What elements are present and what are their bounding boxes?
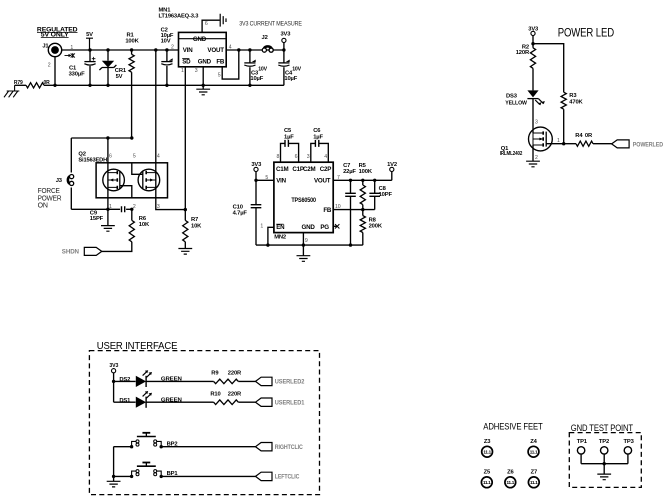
svg-text:PG: PG xyxy=(320,224,329,231)
svg-text:1µF: 1µF xyxy=(313,135,323,141)
pin 1 of J1 xyxy=(70,45,73,51)
capacitor C2 xyxy=(165,48,168,51)
capacitor C4 xyxy=(283,50,285,63)
wire DS1 row corner xyxy=(114,401,136,403)
pin 1 label MN1 SD xyxy=(181,68,184,74)
svg-text:GND: GND xyxy=(193,36,207,43)
svg-text:5V: 5V xyxy=(86,32,93,38)
svg-text:10µF: 10µF xyxy=(250,76,263,82)
svg-text:DS2: DS2 xyxy=(119,377,130,383)
resistor R3 xyxy=(569,93,577,99)
wire MN1 FB tie to VOUT xyxy=(222,50,239,79)
svg-text:1V2: 1V2 xyxy=(387,162,397,168)
ground rotated at MN1 tab xyxy=(220,14,226,27)
pin 2 label Q2 xyxy=(133,204,136,210)
svg-text:YELLOW: YELLOW xyxy=(505,100,527,106)
wire DS2 to R9 xyxy=(146,380,214,382)
wire Q1 gate to node xyxy=(546,143,564,145)
svg-text:ADHESIVE FEET: ADHESIVE FEET xyxy=(483,421,543,432)
led DS2 xyxy=(136,370,152,387)
svg-text:3V3: 3V3 xyxy=(109,363,118,369)
resistor R4 xyxy=(564,143,576,145)
mosfet Q2-B right xyxy=(138,169,160,191)
capacitor C8 xyxy=(374,180,376,193)
svg-text:5V: 5V xyxy=(116,74,123,80)
svg-text:2: 2 xyxy=(535,155,538,161)
resistor R7 xyxy=(184,210,186,221)
pin 4 label C6 xyxy=(324,154,327,160)
svg-text:MN1: MN1 xyxy=(159,7,172,13)
zener diode CR1 xyxy=(106,48,109,51)
wire TP3 down xyxy=(627,454,629,464)
svg-text:10V: 10V xyxy=(292,67,301,73)
svg-text:1µF: 1µF xyxy=(284,135,294,141)
wire R8 to gnd rail xyxy=(362,233,364,246)
wire MN1 pin6 to side ground xyxy=(202,20,220,32)
svg-text:6: 6 xyxy=(109,153,112,159)
svg-text:FORCE: FORCE xyxy=(38,188,61,195)
wire Q2 pin1 down xyxy=(107,198,109,226)
svg-text:C6: C6 xyxy=(313,128,321,134)
wire R3 to gate node xyxy=(563,109,565,144)
wire MN1 SD pin down to R7 node xyxy=(184,67,186,210)
wire C9 row xyxy=(71,208,120,210)
svg-text:7: 7 xyxy=(337,175,340,181)
svg-text:DS1: DS1 xyxy=(119,398,131,404)
adhesive foot Z4 xyxy=(528,446,539,457)
svg-text:11.1: 11.1 xyxy=(507,480,515,485)
pin 1 polarity arrow marker xyxy=(65,53,75,58)
jumper J3 xyxy=(56,178,63,184)
resistor R6 xyxy=(129,220,134,241)
wire to tag RIGHTCLIC xyxy=(161,446,255,448)
wire top rail of Q2 block xyxy=(71,137,132,139)
svg-text:2: 2 xyxy=(48,63,51,69)
pin 6 label Q2 xyxy=(109,153,112,159)
wire R10 to tag xyxy=(238,401,255,403)
connector J1 xyxy=(48,43,61,56)
svg-text:4: 4 xyxy=(324,154,327,160)
svg-text:3: 3 xyxy=(157,204,160,210)
wire J1 pin2 down xyxy=(54,57,56,86)
wire R7 to ground xyxy=(184,242,186,249)
wire Q2-A gate to pin 2 xyxy=(120,186,132,198)
svg-text:R9: R9 xyxy=(211,370,219,376)
wire bus to ground xyxy=(603,464,605,474)
svg-text:1: 1 xyxy=(181,68,184,74)
resistor R2 xyxy=(522,44,529,50)
svg-text:220R: 220R xyxy=(228,370,242,376)
wire left stub BP2 xyxy=(114,446,132,448)
svg-text:VIN: VIN xyxy=(276,178,286,185)
ground rail bottom xyxy=(55,84,284,86)
svg-text:1: 1 xyxy=(260,223,263,229)
svg-text:Z4: Z4 xyxy=(530,439,537,445)
svg-text:Z7: Z7 xyxy=(531,469,537,475)
svg-text:POWER LED: POWER LED xyxy=(558,26,615,40)
pin 3 label Q2 xyxy=(157,204,160,210)
svg-text:VOUT: VOUT xyxy=(314,178,331,185)
svg-text:R7: R7 xyxy=(191,217,198,223)
title USER INTERFACE xyxy=(97,340,178,352)
pin 8 label C5 xyxy=(277,154,280,160)
svg-text:C2M: C2M xyxy=(303,166,316,173)
resistor R10 xyxy=(210,391,220,397)
wire TP2 down xyxy=(603,454,605,464)
capacitor C7 xyxy=(343,163,350,169)
wire R6 to SHDN tag xyxy=(102,242,132,252)
adhesive foot Z7 xyxy=(528,477,539,488)
push button BP1 xyxy=(132,463,162,477)
dashed frame GND TEST POINT xyxy=(569,433,641,488)
svg-text:LEFTCLIC: LEFTCLIC xyxy=(275,474,300,481)
resistor R9 xyxy=(211,370,219,376)
wire R1 to Q2 pin5 rail xyxy=(131,72,133,138)
ground at Q1 xyxy=(526,161,540,167)
wire PG stub with no-connect X xyxy=(333,225,337,227)
svg-text:C2P: C2P xyxy=(320,166,332,173)
svg-text:MN2: MN2 xyxy=(274,234,286,240)
net 3V3 at regulator output xyxy=(282,48,285,51)
wire button column xyxy=(113,447,115,482)
svg-text:8: 8 xyxy=(277,154,280,160)
svg-text:VIN: VIN xyxy=(183,47,193,54)
svg-text:GND: GND xyxy=(198,59,212,66)
wire FB line xyxy=(333,209,375,211)
svg-text:POWERLED: POWERLED xyxy=(633,141,664,148)
output tag USERLED2 xyxy=(256,377,273,385)
svg-text:120R: 120R xyxy=(516,50,530,56)
svg-text:3V3: 3V3 xyxy=(528,26,539,32)
wire J1 to MN1 VIN rail xyxy=(62,49,179,51)
pin 10 label MN2 FB xyxy=(335,204,341,210)
svg-text:RIGHTCLIC: RIGHTCLIC xyxy=(275,444,304,451)
test point TP2 xyxy=(601,447,608,454)
pin 1 label Q2 xyxy=(109,204,112,210)
pin 2 of J1 xyxy=(48,63,51,69)
svg-text:15PF: 15PF xyxy=(90,216,104,222)
svg-text:TP3: TP3 xyxy=(624,439,635,445)
svg-text:3V3: 3V3 xyxy=(280,32,291,38)
svg-text:5: 5 xyxy=(133,153,136,159)
svg-text:R3: R3 xyxy=(569,93,577,99)
capacitor C5 xyxy=(284,128,292,134)
pin 6 label C5 xyxy=(295,154,298,160)
svg-text:LT1963AEQ-3.3: LT1963AEQ-3.3 xyxy=(159,13,200,19)
svg-text:22µF: 22µF xyxy=(343,169,356,175)
led DS1 xyxy=(136,391,152,408)
led DS3 YELLOW xyxy=(527,90,544,105)
text FORCE POWER ON xyxy=(38,188,61,195)
wire R2 to DS3 xyxy=(532,68,534,90)
svg-text:C1M: C1M xyxy=(276,166,289,173)
svg-text:10V: 10V xyxy=(258,67,267,73)
test point TP1 xyxy=(577,447,584,454)
pin 5 label Q2 xyxy=(133,153,136,159)
svg-text:330µF: 330µF xyxy=(69,72,86,78)
resistor R1 xyxy=(130,48,133,51)
wire Q2 pin2 down to R6 xyxy=(131,209,133,220)
test point TP3 xyxy=(624,447,631,454)
node junction 5V/C1 xyxy=(88,48,91,51)
svg-text:TP1: TP1 xyxy=(577,439,588,445)
svg-text:Z3: Z3 xyxy=(484,439,491,445)
resistor R5 xyxy=(359,163,367,169)
wire 3V3-sense down to Q2 pin 4 xyxy=(154,48,157,51)
svg-text:11.1: 11.1 xyxy=(530,450,538,455)
svg-text:0R: 0R xyxy=(585,133,593,139)
wire to R3 branch xyxy=(533,44,564,92)
svg-text:J3: J3 xyxy=(56,178,63,184)
svg-text:3: 3 xyxy=(535,120,538,126)
capacitor C3 xyxy=(248,48,251,51)
svg-text:10µF: 10µF xyxy=(284,76,297,82)
svg-text:ON: ON xyxy=(38,203,48,210)
svg-text:GND: GND xyxy=(302,224,316,231)
svg-text:11.1: 11.1 xyxy=(530,480,538,485)
ground at MN2 GND xyxy=(297,256,311,262)
regulator MN1 LT1963AEQ-3.3 xyxy=(159,7,172,13)
svg-text:11.1: 11.1 xyxy=(483,480,491,485)
svg-text:10V: 10V xyxy=(161,39,171,45)
pin 2 label MN1 VIN xyxy=(171,45,174,51)
pin 4 label Q2 xyxy=(157,153,160,159)
svg-text:6: 6 xyxy=(295,154,298,160)
svg-text:100K: 100K xyxy=(125,38,139,44)
svg-text:3: 3 xyxy=(307,154,310,160)
output tag USERLED1 xyxy=(256,398,273,406)
capacitor C6 xyxy=(313,128,321,134)
wire test point bus xyxy=(581,463,628,465)
svg-text:R8: R8 xyxy=(369,217,377,223)
pin 3 label C6 xyxy=(307,154,310,160)
pin 3 label MN1 GND xyxy=(195,68,198,74)
svg-text:DS3: DS3 xyxy=(506,94,518,100)
pin 2 label Q1 xyxy=(535,155,538,161)
pin 7 label MN2 VOUT xyxy=(337,175,340,181)
svg-text:EN: EN xyxy=(276,224,285,231)
svg-text:2: 2 xyxy=(171,45,174,51)
mosfet Q1 IRLML2402 xyxy=(529,127,553,151)
title POWER LED xyxy=(558,26,615,40)
svg-text:TP2: TP2 xyxy=(599,439,609,445)
svg-text:TPS60500: TPS60500 xyxy=(291,198,316,204)
power symbol 5V xyxy=(86,32,93,38)
svg-text:R4: R4 xyxy=(575,133,583,139)
svg-text:1: 1 xyxy=(557,138,560,144)
svg-text:3V3 CURRENT MEASURE: 3V3 CURRENT MEASURE xyxy=(239,20,302,27)
wire VOUT rail xyxy=(333,179,392,181)
svg-text:IRLML2402: IRLML2402 xyxy=(500,151,523,157)
ic MN2 TPS60500 xyxy=(274,162,333,232)
svg-text:C5: C5 xyxy=(284,128,292,134)
input tag SHDN xyxy=(84,247,102,255)
wire Q2 pin3 to R7 xyxy=(156,198,186,210)
svg-text:3: 3 xyxy=(195,68,198,74)
pin 5 label MN1 FB xyxy=(218,73,221,79)
ground test points xyxy=(597,474,611,480)
adhesive foot Z5 xyxy=(481,477,492,488)
net 3V3 at TPS input xyxy=(254,167,258,171)
svg-text:100K: 100K xyxy=(359,169,373,175)
wire MN1 VOUT rail xyxy=(226,49,284,51)
jumper J2 xyxy=(262,35,268,41)
wire to tag LEFTCLIC xyxy=(161,475,255,477)
pin 1 label MN2 EN xyxy=(260,223,263,229)
pin 5 label MN2 VIN xyxy=(265,175,268,181)
junction C2 bottom xyxy=(165,84,168,87)
resistor R79 xyxy=(44,84,55,86)
svg-text:0R: 0R xyxy=(44,80,51,86)
resistor R8 xyxy=(362,210,364,216)
ground at MN1 GND xyxy=(196,89,210,95)
ground user interface xyxy=(107,481,121,487)
pin 4 label MN1 VOUT xyxy=(229,45,232,51)
svg-text:220R: 220R xyxy=(228,391,242,397)
text 3V3 CURRENT MEASURE xyxy=(239,20,302,27)
title GND TEST POINT xyxy=(571,423,633,434)
mosfet Q2-A left xyxy=(103,169,125,191)
wire EN pin xyxy=(268,227,274,245)
svg-text:FB: FB xyxy=(216,59,225,66)
svg-text:5: 5 xyxy=(265,175,268,181)
svg-text:J1: J1 xyxy=(42,44,49,50)
wire MN1 GND pin to ground xyxy=(202,67,204,89)
wire Q2 pin6 through left mosfet xyxy=(107,138,109,198)
chassis ground at R79 xyxy=(4,85,19,97)
wire Q2 pin5 to Q2-B gate xyxy=(132,163,143,175)
capacitor C10 xyxy=(255,180,257,204)
ground at Q2 pin1 xyxy=(101,226,115,232)
svg-text:11.1: 11.1 xyxy=(483,450,491,455)
wire TP1 down xyxy=(580,454,582,464)
svg-text:470K: 470K xyxy=(569,100,583,106)
net 3V3 power led xyxy=(531,31,535,35)
svg-text:4.7µF: 4.7µF xyxy=(233,210,248,216)
pin 6 label MN1 GND tab xyxy=(205,21,208,27)
net 3V3 user interface xyxy=(112,369,116,373)
push button BP2 xyxy=(132,433,162,447)
wire R4 to POWERLED tag xyxy=(593,143,612,145)
svg-text:Z5: Z5 xyxy=(484,469,491,475)
svg-text:FB: FB xyxy=(323,207,332,214)
title ADHESIVE FEET xyxy=(483,421,543,432)
junction C1 bottom xyxy=(88,84,91,87)
wire GND pin 9 xyxy=(302,233,304,256)
output tag RIGHTCLIC xyxy=(256,443,273,451)
svg-text:9: 9 xyxy=(305,238,308,244)
svg-text:J2: J2 xyxy=(262,35,268,41)
svg-text:USERLED1: USERLED1 xyxy=(275,399,305,406)
svg-text:4: 4 xyxy=(157,153,160,159)
wire Q2 pin4 through right mosfet xyxy=(155,163,157,198)
wire R9 to tag xyxy=(238,380,255,382)
wire Q1 source down xyxy=(532,145,534,161)
svg-text:SHDN: SHDN xyxy=(62,248,80,255)
dashed frame USER INTERFACE xyxy=(89,351,319,495)
dual mosfet Q2 Si1563EDH xyxy=(78,152,85,158)
svg-text:USERLED2: USERLED2 xyxy=(275,379,305,386)
svg-text:10K: 10K xyxy=(139,222,150,228)
wire DS3 to Q1 drain xyxy=(532,99,534,133)
wire DS1 to R10 xyxy=(146,401,214,403)
pin 1 label Q1 xyxy=(557,138,560,144)
adhesive foot Z3 xyxy=(482,446,493,457)
svg-text:3V3: 3V3 xyxy=(251,162,262,168)
svg-text:USER INTERFACE: USER INTERFACE xyxy=(97,340,178,352)
pin 3 label Q1 xyxy=(535,120,538,126)
capacitor C9 xyxy=(122,206,125,212)
pin 9 label MN2 xyxy=(305,238,308,244)
svg-text:10K: 10K xyxy=(191,223,202,229)
adhesive foot Z6 xyxy=(505,477,516,488)
net 1V2 xyxy=(391,172,393,181)
svg-text:VOUT: VOUT xyxy=(207,47,224,54)
svg-text:R6: R6 xyxy=(139,216,147,222)
svg-text:10PF: 10PF xyxy=(379,192,393,198)
svg-text:10: 10 xyxy=(335,204,341,210)
output tag POWERLED xyxy=(612,140,630,148)
wire VIN xyxy=(256,179,274,181)
svg-text:200K: 200K xyxy=(369,224,383,230)
svg-text:SD: SD xyxy=(182,59,191,66)
junction CR1 bottom xyxy=(106,84,109,87)
output tag LEFTCLIC xyxy=(256,472,273,480)
svg-text:R10: R10 xyxy=(210,391,220,397)
svg-text:6: 6 xyxy=(205,21,208,27)
gnd rail of TPS block xyxy=(256,244,363,246)
capacitor C1 xyxy=(89,50,91,62)
svg-text:Z6: Z6 xyxy=(507,469,514,475)
svg-text:R79: R79 xyxy=(14,80,23,86)
note REGULATED 5V ONLY xyxy=(37,27,78,34)
svg-text:5: 5 xyxy=(218,73,221,79)
wire DS2 row xyxy=(114,380,136,382)
wire left stub BP1 xyxy=(114,475,132,477)
ground at R7 xyxy=(178,249,192,255)
svg-text:POWER: POWER xyxy=(38,195,62,202)
